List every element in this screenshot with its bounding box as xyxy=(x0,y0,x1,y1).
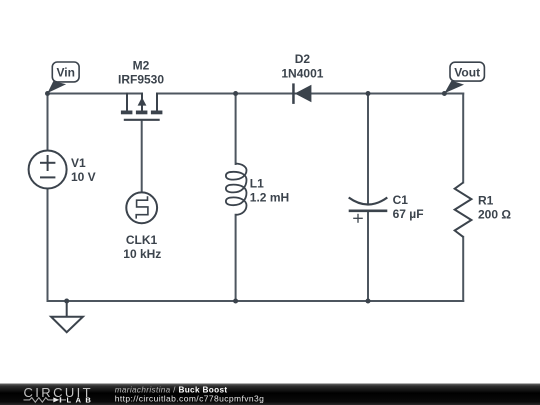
CircuitLab logo: resistor+diode glyph xyxy=(24,398,67,403)
svg-text:Vin: Vin xyxy=(56,66,74,80)
footer bar xyxy=(0,384,540,405)
svg-text:1N4001: 1N4001 xyxy=(281,66,323,80)
M2 drain contact bar xyxy=(151,111,163,115)
junction node at C1 top xyxy=(366,91,371,96)
M2 bulk lead xyxy=(141,94,143,111)
wire V1 bottom lead xyxy=(47,189,49,302)
svg-text:Vout: Vout xyxy=(454,65,480,79)
svg-text:1.2 mH: 1.2 mH xyxy=(250,190,289,204)
svg-text:200 Ω: 200 Ω xyxy=(478,207,511,221)
wire C1 bottom lead xyxy=(367,211,369,301)
svg-text:R1: R1 xyxy=(478,194,494,208)
svg-text:L1: L1 xyxy=(250,177,264,191)
wire L1 top lead xyxy=(235,94,237,165)
svg-text:10 V: 10 V xyxy=(71,170,96,184)
junction node at L1 top xyxy=(233,91,238,96)
wire C1 top lead xyxy=(367,94,369,205)
resistor R1 xyxy=(455,183,472,237)
junction node at Vin xyxy=(45,91,50,96)
junction node at L1 bottom xyxy=(233,299,238,304)
wire diode cathode to R1 corner xyxy=(295,93,464,95)
V1 plus mark xyxy=(41,162,54,164)
junction node at C1 bottom xyxy=(366,299,371,304)
wire top rail: Vin node to M2 source/bulk xyxy=(48,93,143,95)
svg-text:http://circuitlab.com/c778ucpm: http://circuitlab.com/c778ucpmfvn3g xyxy=(115,393,265,403)
inductor L1 xyxy=(226,164,247,215)
junction node at ground xyxy=(64,299,69,304)
D2 cathode bar xyxy=(292,83,295,104)
svg-text:V1: V1 xyxy=(71,156,86,170)
M2 drain lead xyxy=(156,94,158,111)
ground xyxy=(51,301,83,332)
wire R1 top lead xyxy=(462,94,464,183)
M2 bulk contact bar xyxy=(136,111,148,115)
junction node at Vout xyxy=(442,91,447,96)
svg-text:D2: D2 xyxy=(295,52,311,66)
M2 source contact bar xyxy=(121,111,132,115)
wire bottom rail xyxy=(48,300,464,302)
wire L1 bottom lead xyxy=(235,215,237,301)
voltage source V1 xyxy=(29,151,67,189)
node flag Vin xyxy=(48,81,67,93)
M2 gate plate xyxy=(125,119,159,121)
svg-text:10 kHz: 10 kHz xyxy=(123,247,161,261)
wire V1 top lead xyxy=(47,94,49,151)
M2 source lead xyxy=(126,94,128,111)
transistor Q M2 (PMOS IRF9530) xyxy=(125,94,159,120)
svg-text:CLK1: CLK1 xyxy=(126,233,158,247)
V1 minus mark xyxy=(41,176,54,178)
capacitor C1 (polarized) xyxy=(349,198,388,205)
wire M2 gate lead to CLK1 xyxy=(141,121,143,193)
M2 bulk arrow xyxy=(138,97,147,105)
svg-text:IRF9530: IRF9530 xyxy=(118,73,164,87)
D2 anode triangle xyxy=(295,85,312,103)
svg-text:C1: C1 xyxy=(393,193,409,207)
node flag Vout xyxy=(444,81,464,94)
svg-text:LAB: LAB xyxy=(67,396,96,405)
svg-text:M2: M2 xyxy=(133,59,150,73)
clock source CLK1 xyxy=(126,192,157,223)
wire M2 drain to diode anode xyxy=(157,93,293,95)
svg-text:67 µF: 67 µF xyxy=(393,207,424,221)
wire R1 bottom lead xyxy=(462,237,464,301)
diode D2 (1N4001) xyxy=(292,83,311,104)
